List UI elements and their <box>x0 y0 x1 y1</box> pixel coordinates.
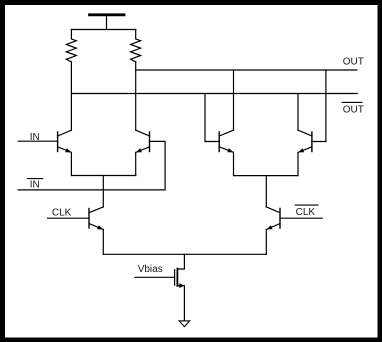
wire left tail down to Q5 collector <box>102 176 104 207</box>
svg-text:CLK: CLK <box>52 208 72 219</box>
wire OUTbar to Q3 base <box>205 94 219 142</box>
wire M1 source to ground <box>183 286 185 321</box>
resistor R-left <box>66 30 76 62</box>
transistor Q3 latch left <box>219 130 233 152</box>
svg-text:IN: IN <box>30 132 40 143</box>
wire right tail down to Q6 collector <box>265 176 267 207</box>
transistor Q4 latch right <box>298 130 312 152</box>
wire OUT to Q4 base <box>312 70 326 142</box>
wire left resistor bottom to Q1 collector <box>70 62 72 130</box>
wire Q4 emitter <box>297 152 299 175</box>
svg-text:CLK: CLK <box>296 207 316 218</box>
wire M1 drain <box>177 254 184 269</box>
label CLKbar <box>295 205 319 218</box>
wire right pair common emitter rail <box>234 175 299 177</box>
wire INbar input to Q2 base <box>18 141 165 190</box>
wire Q2 emitter <box>135 152 137 175</box>
label OUTbar <box>342 102 364 115</box>
transistor Q2 right of input pair <box>136 130 150 152</box>
wire Q3 emitter <box>233 152 235 175</box>
wire M1 gate (Vbias) <box>135 276 175 278</box>
power VDD bar <box>90 13 125 16</box>
wire OUT to Q3 collector <box>233 70 235 130</box>
transistor M1 tail current source <box>175 269 185 289</box>
wire CLKbar input <box>280 217 322 219</box>
transistor Q5 CLK switch <box>89 207 103 230</box>
svg-text:IN: IN <box>30 179 40 190</box>
svg-text:OUT: OUT <box>343 56 364 67</box>
wire right resistor bottom to Q2 collector <box>135 62 137 130</box>
svg-text:OUT: OUT <box>343 105 364 116</box>
transistor Q1 left input pair <box>58 130 72 152</box>
svg-text:Vbias: Vbias <box>138 264 163 275</box>
wire top supply rail <box>71 29 135 31</box>
wire bottom common rail <box>103 253 266 255</box>
wire OUT net <box>136 69 357 71</box>
wire left pair common emitter rail <box>71 175 135 177</box>
wire Q5 emitter <box>102 230 104 255</box>
wire VDD stem <box>106 16 108 30</box>
wire IN input <box>18 140 57 142</box>
wire OUTbar to Q4 collector <box>297 94 299 131</box>
wire OUTbar net <box>71 93 357 95</box>
ground <box>179 321 190 327</box>
resistor R-right <box>131 30 141 62</box>
label INbar <box>27 179 44 191</box>
wire Q1 emitter <box>70 152 72 175</box>
wire Q6 emitter <box>265 230 267 255</box>
wire CLK input <box>48 217 90 219</box>
transistor Q6 CLKbar switch <box>266 207 280 230</box>
